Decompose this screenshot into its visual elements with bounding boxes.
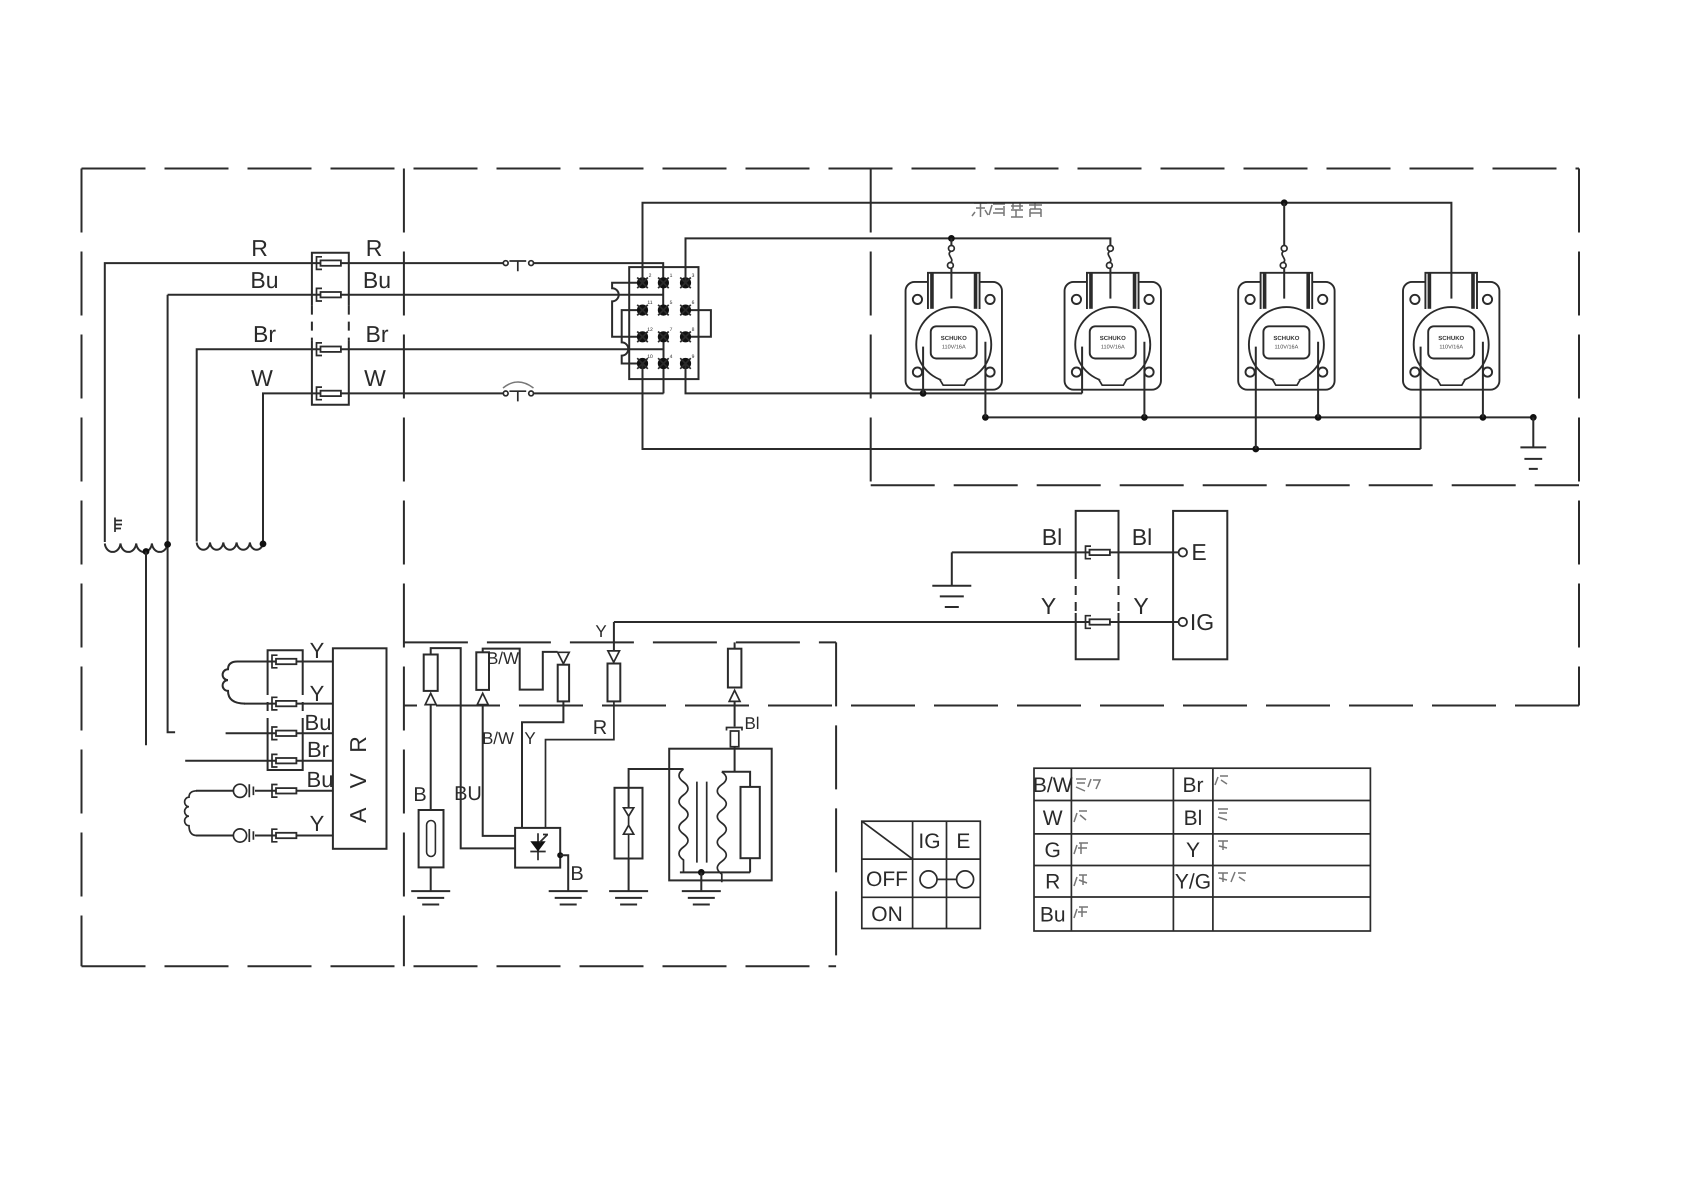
svg-text:8: 8: [692, 327, 695, 333]
excitation winding L2: [197, 543, 264, 550]
svg-text:R: R: [593, 717, 607, 739]
resistor R1 (B lamp resistor): [424, 655, 438, 691]
svg-text:E: E: [1191, 539, 1206, 565]
svg-text:Bl: Bl: [1184, 807, 1203, 830]
node on L3 at receptacle 3 left terminal: [1252, 446, 1259, 453]
SO3 feed from Y1: [1283, 203, 1285, 246]
switch table frame: [862, 821, 981, 928]
engine terminal block body: [1173, 511, 1227, 659]
SCR rectifier box: [515, 828, 560, 868]
svg-text:G: G: [1045, 839, 1061, 862]
svg-text:5: 5: [670, 300, 673, 306]
svg-text:B/W: B/W: [1033, 774, 1073, 797]
node on Y1 at receptacle 3 switch: [1281, 199, 1288, 206]
svg-text:BU: BU: [454, 783, 482, 805]
svg-text:Y: Y: [524, 729, 535, 748]
wire Y-net corner down to D4: [613, 622, 615, 651]
svg-text:1: 1: [670, 273, 673, 279]
svg-text:Y: Y: [595, 622, 606, 641]
svg-text:Br: Br: [1183, 774, 1204, 797]
svg-text:W: W: [251, 365, 273, 391]
wire Y from R3 to SCR gate side: [522, 701, 563, 828]
svg-text:A V R: A V R: [345, 729, 371, 823]
terminal pin W in CN1: [317, 387, 341, 400]
wire from centre tap down: [145, 552, 147, 746]
ignition coil box: [669, 749, 772, 881]
wire AVR row6 Y (brush lead): [196, 835, 233, 837]
terminal pin row1: [272, 655, 296, 668]
SO2 left terminal wire to L1: [1081, 347, 1083, 394]
bottom dashed border of generator/regulator boxes: [82, 965, 837, 967]
wire row6 to terminal: [255, 835, 333, 837]
connector arrow under R6: [729, 690, 740, 701]
svg-text:4: 4: [670, 354, 673, 360]
wire Bl from R6 down: [734, 701, 736, 726]
receptacle SO2: [1065, 273, 1161, 390]
stator core mark: [115, 518, 122, 533]
wire AVR row2 Y: [244, 703, 333, 705]
wire B/W from R2 to SCR: [483, 705, 515, 836]
svg-text:Bu: Bu: [1040, 904, 1066, 927]
generator box dashed divider at x=404: [403, 169, 405, 967]
colour names (chinese, faint) col2: [1074, 779, 1100, 918]
terminal pin row6: [272, 829, 296, 842]
svg-text:2: 2: [649, 273, 652, 279]
ground: receptacle panel earth: [1520, 417, 1546, 469]
receptacle panel dashed divider at x=871: [870, 169, 872, 486]
splice on wire W with hop arc: [503, 382, 534, 401]
SO2 plug feed wire: [1109, 268, 1111, 298]
sense coil (sub winding): [223, 662, 245, 704]
R5 bottom stub: [749, 858, 751, 872]
terminal E post: [1179, 548, 1187, 556]
wire row5 to terminal: [255, 790, 333, 792]
node L2 earth tap: [1530, 414, 1537, 421]
SO1 plug feed wire: [950, 268, 952, 298]
svg-text:Bu: Bu: [363, 267, 391, 293]
terminal pin row4: [272, 754, 296, 767]
CN2 pins 4x3 grid: [637, 277, 691, 369]
pulser diode pair box: [615, 788, 643, 859]
svg-text:11: 11: [647, 300, 652, 306]
svg-text:Y: Y: [310, 638, 325, 663]
spark plug cap connector: [727, 728, 743, 747]
wire Br from excitation winding: [197, 349, 664, 541]
switch SW1: [948, 246, 955, 269]
wire R from main winding up-left: [105, 263, 504, 542]
node coil common: [698, 869, 705, 876]
node SCR cathode: [557, 852, 563, 858]
wire coil common to ground: [700, 872, 702, 891]
svg-text:9: 9: [692, 354, 695, 360]
coil common bottom link: [680, 871, 750, 873]
svg-text:Br: Br: [366, 321, 389, 347]
CN2 pin numbers: [647, 273, 694, 360]
svg-text:Y: Y: [1186, 839, 1200, 862]
ground: fuse: [411, 891, 450, 904]
wire bus L3 from pin10 to receptacle 4 left terminal: [643, 364, 1421, 450]
svg-text:Br: Br: [307, 737, 329, 762]
receptacle panel dashed bottom edge: [871, 484, 1579, 486]
svg-text:10: 10: [647, 354, 653, 360]
SO1 right terminal wire to L2: [984, 342, 986, 418]
node: excitation winding right end: [260, 541, 267, 548]
SO3 right terminal wire to L2: [1317, 342, 1319, 418]
svg-text:12: 12: [647, 327, 653, 333]
enclosure dashed border: right edge: [1578, 169, 1580, 706]
svg-text:3: 3: [692, 273, 695, 279]
rotor field coil: [185, 791, 197, 836]
svg-text:ON: ON: [871, 903, 903, 926]
connector CN4 body (AVR sense leads): [268, 650, 303, 770]
terminal pin Y in CN3: [1086, 616, 1110, 629]
diode D3 (over R3): [558, 652, 570, 663]
bullet connector row5: [233, 784, 253, 797]
receptacle SO4: [1403, 273, 1499, 390]
terminal pin row5: [272, 785, 296, 798]
enclosure dashed border: top edge: [82, 168, 1580, 170]
svg-text:R: R: [251, 235, 268, 261]
node L2 receptacle3: [1315, 414, 1322, 421]
svg-text:B/W: B/W: [487, 649, 519, 668]
wire Bl from earth to terminal E: [952, 551, 1179, 553]
svg-text:6: 6: [692, 300, 695, 306]
SO3 left terminal wire to L3: [1255, 347, 1257, 449]
jumper pin1-pin7 (left outer, hops over Bu): [612, 283, 638, 337]
svg-text:Bu: Bu: [250, 267, 278, 293]
wire AVR row1 Y: [244, 661, 333, 663]
note text (chinese, faint): [972, 202, 1042, 217]
svg-text:R: R: [366, 235, 383, 261]
svg-text:Y: Y: [310, 811, 325, 836]
svg-text:E: E: [956, 830, 970, 853]
svg-text:Y: Y: [310, 681, 325, 706]
connector CN3 body (engine harness): [1076, 511, 1119, 659]
svg-text:Y/G: Y/G: [1175, 871, 1211, 894]
wire fuse to ground: [430, 867, 432, 891]
wire R from R4 to SCR: [546, 701, 614, 828]
ground: engine stop earth: [932, 552, 971, 607]
svg-text:B: B: [413, 784, 426, 806]
primary winding: [679, 769, 688, 872]
thyristor symbol: [530, 833, 548, 860]
svg-text:Bl: Bl: [1132, 524, 1152, 550]
SO4 plug feed wire: [1450, 273, 1452, 299]
secondary resistor R5: [741, 787, 760, 858]
ground: ignition coil: [682, 891, 721, 904]
ignition module dashed box: top edge: [404, 641, 836, 643]
AVR regulator box: [333, 648, 387, 849]
secondary top link: [722, 772, 750, 787]
terminal pin R in CN1: [317, 257, 341, 270]
wire BU from R1 top to SCR: [431, 648, 515, 848]
main stator winding L1: [105, 544, 168, 552]
SO4 left terminal wire to L3: [1420, 347, 1422, 449]
terminal pin Bu in CN1: [317, 288, 341, 301]
svg-text:R: R: [1045, 871, 1060, 894]
fuse F1 box: [419, 810, 444, 867]
switch SW2: [1107, 246, 1114, 269]
SO1 feed from Y2: [950, 238, 952, 245]
wire R right segment into CN2: [533, 263, 663, 310]
wire AVR row5 Bu (brush lead): [196, 790, 233, 792]
connector arrow under R2: [477, 693, 488, 704]
terminal pin Bl in CN3: [1086, 546, 1110, 559]
terminal IG post: [1179, 618, 1187, 626]
switch SW3: [1280, 246, 1287, 269]
node on L1 at receptacle 1 left terminal: [920, 390, 927, 397]
svg-text:Bu: Bu: [305, 710, 332, 735]
wire AVR row4 Br: [185, 760, 333, 762]
wire bus L1 from pin9 to receptacle 2 left terminal: [686, 364, 1083, 394]
wire bus L2 (neutral) to earth point: [985, 416, 1533, 418]
enclosure dashed border: bottom edge of right unit: [404, 705, 1579, 707]
node L2 receptacle2: [1141, 414, 1148, 421]
wire W left segment: [263, 393, 504, 544]
terminal pin Br in CN1: [317, 343, 341, 356]
resistor R6 (Bl feed): [728, 649, 742, 688]
ignition module dashed box: right edge: [835, 642, 837, 966]
bullet connector row6: [233, 829, 253, 842]
R6 top stub: [734, 642, 736, 648]
connector CN1 body (stator leads): [312, 253, 349, 405]
node: winding centre tap: [143, 548, 150, 555]
receptacle SO1 (230V outlet): [906, 273, 1002, 390]
terminal pin row3: [272, 727, 296, 740]
wire Y from ignition module to terminal IG: [614, 621, 1179, 623]
node: winding right end: [164, 541, 171, 548]
SO4 right terminal wire to L2: [1482, 342, 1484, 418]
wire diode pair to ground: [628, 859, 630, 892]
wire R1 to fuse: [430, 705, 432, 810]
svg-text:W: W: [364, 365, 386, 391]
wire Br/W pin column link: [663, 337, 665, 394]
wire SCR to ground B: [560, 855, 568, 891]
secondary winding: [717, 772, 726, 882]
svg-text:7: 7: [670, 327, 673, 333]
terminal pin row2: [272, 697, 296, 710]
colour names (chinese, faint) col4: [1215, 776, 1246, 882]
wire bus Y2 from pin3 to receptacle 2 switch: [686, 238, 1111, 282]
wire AVR row3 Bu: [226, 732, 333, 734]
wire Bu from main winding right end: [168, 294, 664, 296]
ground: diode pair: [609, 891, 648, 904]
wire colour table frame: [1034, 768, 1370, 931]
node L2 receptacle1: [982, 414, 989, 421]
svg-text:Bl: Bl: [1042, 524, 1062, 550]
node L2 receptacle4: [1480, 414, 1487, 421]
ground: SCR cathode: [549, 891, 588, 904]
receptacle SO3: [1238, 273, 1334, 390]
connector CN2 body (12-pin panel connector): [629, 267, 698, 379]
fuse F1 element: [427, 821, 436, 857]
jumper pin4-pin10 (left inner, hops over Br): [622, 310, 638, 363]
svg-text:Y: Y: [1133, 593, 1148, 619]
enclosure dashed border: left edge: [81, 169, 83, 967]
diode D4 (over R4): [608, 651, 620, 662]
wire W right segment: [533, 392, 663, 394]
switch contact symbol: [920, 871, 974, 888]
wire staircase from R2 top to diode D3: [483, 649, 558, 690]
resistor R2 (B/W): [476, 652, 489, 690]
diode pair symbols: [624, 808, 634, 859]
wire into diode pair from coil feed: [629, 769, 684, 808]
jumper pin6-pin9 (right side): [686, 310, 711, 337]
core lines: [697, 782, 707, 863]
resistor R4 (R): [608, 664, 621, 702]
svg-text:Br: Br: [253, 321, 276, 347]
svg-text:B: B: [570, 863, 583, 885]
svg-text:IG: IG: [1190, 609, 1214, 635]
SO3 plug feed wire: [1283, 268, 1285, 298]
wire cap to coil: [734, 747, 736, 772]
svg-text:Bu: Bu: [307, 767, 334, 792]
SO1 left terminal wire to L1: [922, 347, 924, 394]
svg-text:Bl: Bl: [744, 714, 759, 733]
svg-text:IG: IG: [918, 830, 940, 853]
svg-text:W: W: [1043, 807, 1063, 830]
splice on wire R: [503, 261, 533, 272]
resistor R3 (Y): [558, 665, 569, 702]
svg-text:Y: Y: [1041, 593, 1056, 619]
SO2 right terminal wire to L2: [1143, 342, 1145, 418]
svg-text:OFF: OFF: [866, 868, 908, 891]
wire Bu vertical down to winding and tail stub: [168, 295, 176, 733]
wire bus Y1 from pin1 to receptacle 4: [643, 203, 1452, 299]
connector arrow under R1: [425, 693, 436, 704]
node on Y2 at receptacle 1 switch: [948, 235, 955, 242]
svg-text:B/W: B/W: [482, 729, 514, 748]
